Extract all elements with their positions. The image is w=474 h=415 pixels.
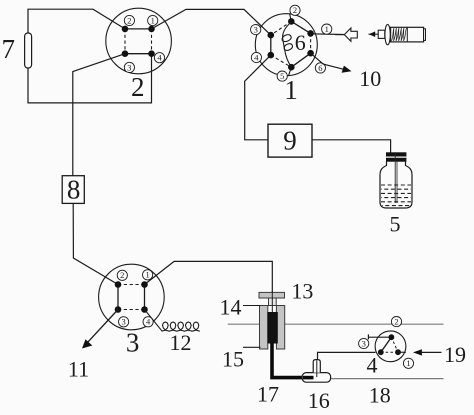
svg-text:14: 14 [220,295,242,320]
svg-text:1: 1 [145,270,149,280]
box 8 [62,176,84,204]
svg-text:13: 13 [291,279,313,304]
box 9 [268,124,312,157]
svg-text:16: 16 [308,388,330,413]
wire valve 3 port 1 to part 13 top [145,261,273,292]
valve 3 rotor solid paths [118,285,145,310]
valve 1 rotor dashed paths [271,21,311,67]
svg-text:2: 2 [127,15,131,25]
valve 2 pin label 3 [124,62,134,72]
valve 2 port dots [122,26,155,57]
valve 1 pin label 1 [322,24,332,34]
valve 1 pin label 2 [290,5,300,15]
svg-text:2: 2 [293,5,297,15]
valve 2 pin label 4 [154,53,164,63]
valve 3 body [99,264,165,330]
svg-text:6: 6 [295,30,306,55]
valve 4 body [375,331,406,362]
injection block arrow [344,28,357,41]
vaporizer 13 left wall [260,306,268,350]
valve 2 pin label 1 [148,15,158,25]
valve 3 pin label 3 [119,317,129,327]
column 7 [25,33,32,68]
bottle 5 liquid dashes [381,185,411,206]
waste arrow 10 [311,53,346,69]
svg-text:12: 12 [170,330,192,355]
valve 1 port 2 stub [290,14,292,22]
wire valve 4 port 2 stub to tee 16 stem [318,352,376,371]
svg-text:18: 18 [369,383,391,408]
syringe needle [369,33,379,35]
svg-text:1: 1 [284,75,298,105]
sample loop tubing inside valve 1 (port 2 to port 5) [283,22,292,67]
tee union 16 base [302,373,330,383]
bottle 5 dip tube [394,152,396,203]
svg-text:2: 2 [394,317,398,327]
valve 2 body [106,8,172,74]
restrictor coil 12 [162,322,200,331]
thick transfer tube 17 [272,343,314,378]
wire box 8 bottom to valve 3 port 2 [73,203,118,284]
valve 4 pin label 3 [359,338,369,348]
svg-text:2: 2 [131,72,145,102]
svg-text:1: 1 [406,358,410,368]
svg-text:10: 10 [359,66,381,91]
wire valve 2 port 1 to valve 1 port 3 [152,9,271,35]
svg-text:5: 5 [390,212,401,237]
svg-text:3: 3 [127,62,131,72]
valve 4 pin label 2 [391,317,401,327]
valve 1 pin label 4 [251,52,261,62]
wire valve 2 port 3 to box 8 top [73,54,125,176]
valve 1 pin label 3 [251,25,261,35]
valve 4 port dots [378,334,401,355]
wire top-left loop from column 7 top to valve 2 port 2 [28,9,125,33]
svg-text:3: 3 [362,338,366,348]
syringe hub [378,30,385,38]
bottle 5 body [380,162,412,209]
wire valve 1 port 4 to box 9 left [245,55,271,140]
vaporizer 13 stem [269,298,277,306]
syringe barrel end [424,29,426,41]
svg-text:17: 17 [257,382,279,407]
valve 3 port dots [115,281,148,313]
syringe barrel [391,27,424,42]
arrow 19 head [413,349,422,355]
sample loop coil turn b [284,44,292,51]
svg-text:3: 3 [126,328,140,358]
pointer 14 [243,305,260,307]
wire box 9 right to bottle 5 cap [312,140,391,153]
wire column 7 bottom to valve 2 port 4 [28,54,152,103]
valve 4 rotor dashed paths [381,337,398,352]
bottle 5 cap [386,152,406,161]
vaporizer 13 right wall [276,306,284,350]
svg-text:11: 11 [68,357,89,382]
valve 3 rotor dashed paths [118,285,145,310]
sample loop coil turn a [282,35,291,42]
svg-text:19: 19 [444,342,466,367]
svg-text:15: 15 [222,347,244,372]
svg-text:8: 8 [67,175,81,205]
detector arrow 11 [87,310,119,344]
pointer 15 [243,346,260,348]
svg-text:1: 1 [325,24,329,34]
valve 1 port dots [268,18,314,70]
valve 3 pin label 4 [143,317,153,327]
vaporizer 13 black packing [267,312,277,344]
svg-text:7: 7 [2,34,16,64]
vaporizer 13 inner tube wire [271,291,273,313]
restrictor coil 12 lead [145,310,162,331]
valve 4 rotor solid path [381,337,392,352]
svg-text:6: 6 [318,63,322,73]
capillary line through part 13 (long gray) [228,323,444,325]
wire arrow 19 line [422,351,442,353]
svg-text:9: 9 [283,126,297,156]
svg-text:3: 3 [121,317,125,327]
wire valve 4 right dot to circle edge [398,351,406,353]
tee union 16 stem [313,360,320,373]
valve 1 pin label 5 [277,71,287,81]
syringe flange [385,24,390,44]
svg-text:4: 4 [367,353,378,378]
valve 1 body [255,14,317,76]
svg-text:3: 3 [254,25,258,35]
valve 1 pin label 6 [315,63,325,73]
valve 2 rotor dashed paths [125,29,152,54]
valve 4 pin label 1 [403,358,413,368]
svg-text:1: 1 [151,15,155,25]
svg-text:4: 4 [254,52,259,62]
valve 2 rotor solid paths [125,29,152,54]
transfer line 18 (long gray) [331,378,444,380]
thick tube into tee [303,376,314,380]
svg-text:4: 4 [146,317,151,327]
wire valve 1 port 1 to injection arrow [311,33,344,36]
valve 1 rotor solid paths [271,21,311,67]
valve 3 pin label 2 [117,270,127,280]
syringe plunger hatch [392,28,407,41]
valve 2 pin label 2 [124,15,134,25]
wire valve 4 port 3 capped line with tick [368,336,391,338]
valve 3 pin label 1 [143,270,153,280]
svg-text:2: 2 [120,270,124,280]
vaporizer 13 cap bar [259,292,285,298]
tee union 16 inner line [316,361,318,378]
valve 1 port 5 stub [289,67,292,75]
